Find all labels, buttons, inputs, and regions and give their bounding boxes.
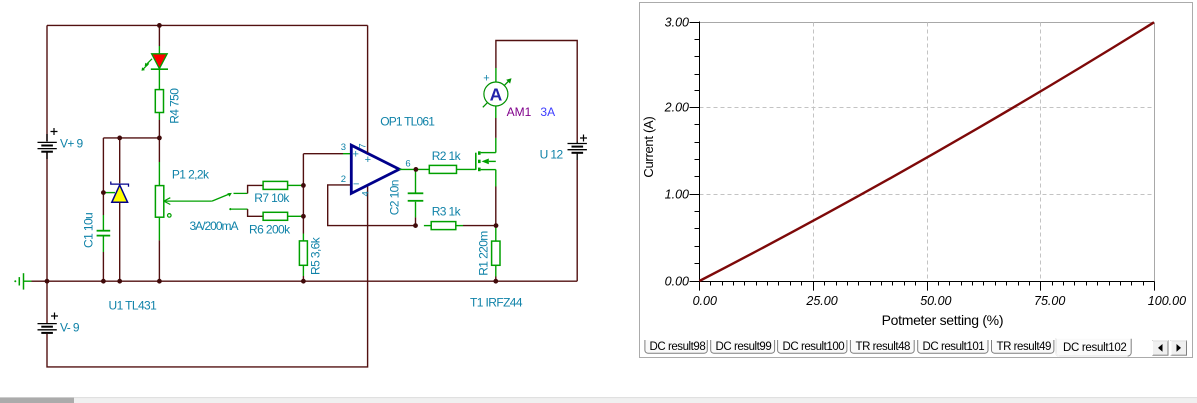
tab scroll button right [1171,341,1187,356]
wire op-amp pin7 supply [367,25,369,152]
curve DC result102 [699,22,1154,281]
svg-text:0.00: 0.00 [665,274,689,288]
svg-text:3: 3 [341,142,346,153]
junction dots [45,23,499,284]
capacitor C1 [97,215,111,252]
label R7 10k [254,191,290,205]
label U1 TL431 [109,298,158,312]
capacitor C2 [408,169,424,217]
wire left rail lower (V+ bottom to ground rail) [46,153,48,282]
svg-text:TR result48: TR result48 [856,341,911,353]
node A (V+ distribution wire) [103,137,159,139]
label R2 1k [432,149,462,163]
wire C2 to feedback node [415,217,417,225]
wire P1 top [158,138,160,162]
pin 2 number [341,174,346,185]
resistor R6 [263,212,303,220]
svg-text:Current (A): Current (A) [641,117,656,178]
y major ticks [690,23,700,282]
tab TR result48 [850,340,914,353]
transistor T1 IRFZ44 (MOSFET) [476,138,496,187]
label P1 2,2k [172,168,210,182]
tab DC result98 [645,340,707,353]
svg-text:1.00: 1.00 [665,188,689,202]
svg-text:3A: 3A [540,105,555,119]
label R5 3,6k [309,236,323,275]
x tick labels [693,294,1186,308]
switch SW1 blade [212,193,232,201]
label C1 10u [82,213,96,248]
op-amp OP1 TL061 [351,145,399,193]
pin 4 number [360,191,371,196]
wire R4 to node [158,120,160,138]
svg-text:6: 6 [405,158,410,169]
resistor R4 [155,90,163,120]
svg-text:7: 7 [357,143,368,148]
svg-text:T1 IRFZ44: T1 IRFZ44 [470,295,523,309]
pin 7 number [357,143,368,148]
y tick labels [664,15,689,288]
svg-text:R6 200k: R6 200k [249,223,291,237]
svg-text:0.00: 0.00 [693,294,717,308]
ammeter AM1 [483,68,512,107]
x major ticks [814,282,1155,291]
tab scroll button left [1153,341,1169,356]
resistor R1 [492,226,500,277]
label V+ 9 [60,137,84,151]
y minor ticks [695,40,700,264]
wire left rail upper (V+ top) [46,25,48,141]
tab DC result101 [918,340,988,353]
wire op-amp output [399,168,429,170]
x axis title [882,312,1004,328]
grid top border (3.00 line) [700,22,1155,24]
label C2 10n [387,180,401,215]
gridline 50% [927,23,929,282]
svg-text:4: 4 [360,191,371,196]
wire MOSFET drain up to ammeter [495,106,497,138]
svg-text:R4 750: R4 750 [168,88,182,124]
svg-text:R5 3,6k: R5 3,6k [309,236,323,275]
battery V+ 9 [38,128,58,159]
svg-text:R2 1k: R2 1k [432,149,462,163]
LED branch wire from top rail [158,25,160,46]
wire ground to rail junction [32,280,48,282]
pin 3 number [341,142,346,153]
tab DC result99 [711,340,775,353]
svg-text:2.00: 2.00 [664,101,689,115]
svg-text:V- 9: V- 9 [60,321,80,335]
svg-text:+: + [483,73,489,85]
chart window frame [640,3,1193,358]
wire pin2 feedback [328,185,416,226]
tab DC result100 [778,340,847,353]
label R1 220m [476,231,490,276]
svg-text:3A/200mA: 3A/200mA [190,219,239,233]
svg-text:A: A [490,84,503,104]
label V- 9 [60,321,80,335]
svg-text:−: − [353,179,359,191]
wire C1 branch upper [102,138,104,215]
svg-text:+: + [353,149,359,161]
battery V- 9 [38,281,59,333]
wire R1 to bottom rail [495,277,497,282]
svg-text:AM1: AM1 [507,105,532,119]
svg-text:C2 10n: C2 10n [387,180,401,215]
bottom scrollbar thumb [0,398,74,403]
y axis title [641,117,656,178]
label U 12 [540,147,564,161]
svg-text:U 12: U 12 [540,147,564,161]
svg-text:+: + [365,154,371,166]
label AM1 [507,105,532,119]
svg-text:R1 220m: R1 220m [476,231,490,276]
wire R5 to bottom rail [302,276,304,281]
wire TL431 anode to bottom rail [119,202,121,281]
pin 6 number [405,158,410,169]
wire bottom rail [47,280,577,282]
label 3A/200mA [190,219,239,233]
label R6 200k [249,223,291,237]
switch upper throw contact [234,192,248,194]
grid right border (100%) [1154,23,1156,282]
svg-text:U1 TL431: U1 TL431 [109,298,158,312]
svg-text:TR result49: TR result49 [997,341,1052,353]
wire TL431 cathode branch [119,138,121,183]
wire P1 bottom to rail [158,240,160,281]
svg-text:DC result98: DC result98 [650,341,706,353]
svg-text:2: 2 [341,174,346,185]
wire switch to R7 [248,185,264,193]
wire C1 to bottom rail [102,252,104,281]
bottom scrollbar track [0,398,1197,403]
svg-text:100.00: 100.00 [1148,294,1186,308]
label OP1 TL061 [380,114,435,128]
potentiometer P1 [155,162,212,240]
gridline 75% [1040,23,1042,282]
label R4 750 [168,88,182,124]
gridline 25% [813,23,815,282]
resistor R7 [263,181,303,189]
resistor R5 [299,234,307,277]
svg-text:Potmeter setting (%): Potmeter setting (%) [882,312,1004,328]
svg-text:75.00: 75.00 [1034,294,1065,308]
resistor R3 [424,222,463,230]
svg-text:DC result99: DC result99 [716,341,772,353]
label T1 IRFZ44 [470,295,523,309]
wire top rail [47,24,368,26]
battery U 12 [568,135,588,161]
wire MOSFET source down [495,187,497,226]
svg-text:R7 10k: R7 10k [254,191,290,205]
resistor R2 [429,165,476,173]
svg-text:DC result100: DC result100 [783,341,845,353]
svg-text:R3 1k: R3 1k [432,205,462,219]
svg-text:DC result102: DC result102 [1063,342,1127,354]
ground [14,273,31,289]
x minor ticks [711,282,1144,286]
wire switch to R6 [248,209,264,216]
tab DC result102 (active) [1056,339,1132,356]
gridline 2.00 [700,107,1155,109]
svg-text:3.00: 3.00 [665,15,689,29]
x axis [700,281,1155,283]
wire TL431 ref lead [103,192,115,194]
LED D1 [142,46,169,90]
shunt regulator U1 TL431 [111,182,129,203]
wire summing node vertical to op-amp +input [303,154,343,234]
y axis [699,22,701,291]
label 3A [540,105,555,119]
svg-text:50.00: 50.00 [920,294,951,308]
svg-text:P1 2,2k: P1 2,2k [172,168,210,182]
svg-text:DC result101: DC result101 [923,341,985,353]
wire R3 to source node [463,225,496,227]
svg-text:25.00: 25.00 [805,294,837,308]
svg-text:C1 10u: C1 10u [82,213,96,248]
svg-text:V+ 9: V+ 9 [60,137,84,151]
gridline 1.00 [700,194,1155,196]
svg-text:OP1 TL061: OP1 TL061 [380,114,435,128]
switch lower throw contact [229,208,247,210]
wire V- bottom loop to op-amp pin4 [47,186,368,367]
label R3 1k [432,205,462,219]
op-amp U1 input lead pin3 [343,153,351,155]
wire U12 to bottom rail [576,160,578,281]
wire ammeter top loop to U12 [496,41,577,142]
tab TR result49 [992,340,1054,353]
